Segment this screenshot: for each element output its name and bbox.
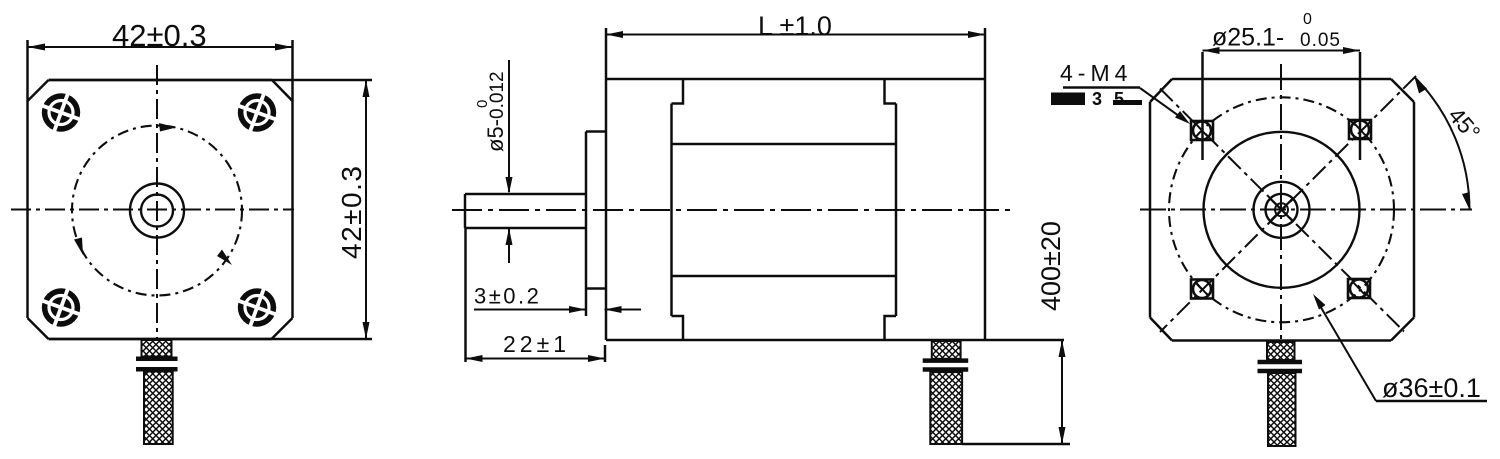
cable stub rear view: [1267, 342, 1295, 360]
arrow right of 22 dim: [588, 355, 605, 362]
rear chamfer top-right: [1391, 79, 1414, 102]
rotation arrow top of bolt circle: [159, 123, 176, 132]
cable stub side view: [932, 341, 961, 359]
front boss outline: [586, 132, 606, 289]
dim line 22: [466, 358, 606, 360]
dimension line 42 top: [28, 46, 293, 48]
label ø5 tolerance (rotated): [474, 71, 508, 152]
rotation arrow left of bolt circle: [74, 238, 83, 256]
cable stub front view: [142, 340, 172, 357]
shaft top edge: [465, 193, 586, 196]
rear face outline (chamfered square): [1150, 79, 1414, 341]
arrow down tip 400 dim: [1059, 427, 1066, 444]
svg-text:0.05: 0.05: [1300, 30, 1341, 51]
extension line left (42 top dim): [26, 40, 29, 101]
svg-text:5: 5: [1114, 89, 1124, 109]
svg-text:ø25.1-: ø25.1-: [1212, 24, 1284, 52]
4-M4 leader arrow: [1175, 111, 1190, 124]
arrow right of L dim: [968, 31, 985, 38]
vertical centerline: [156, 65, 158, 339]
extension line pilot right: [1359, 52, 1362, 160]
svg-text:3: 3: [1092, 89, 1102, 109]
pilot boss circle: [130, 184, 184, 238]
cable collar bar 2 front view: [136, 367, 178, 372]
dim line 3 right part: [605, 309, 642, 311]
cable collar bar 1 rear view: [1258, 360, 1303, 365]
chamfer bottom-right: [272, 318, 293, 339]
rear chamfer top-left: [1150, 79, 1172, 102]
extension line pilot left: [1201, 52, 1204, 160]
arrow right of 25.1 dim: [1343, 47, 1360, 54]
cable collar bar 1 front view: [136, 357, 178, 362]
shaft circle rear: [1266, 194, 1298, 226]
arrow left tip boss right: [605, 306, 622, 313]
extension of bottom edge to right dim: [49, 338, 373, 341]
dim line 3 left part: [474, 309, 586, 311]
arrow left of L dim: [606, 31, 623, 38]
hub circle rear: [1254, 182, 1310, 238]
diagonal centerline NE-SW (extended for 45 dim): [1160, 76, 1416, 332]
arrow top of right dim: [363, 80, 370, 97]
arrow down to shaft: [506, 177, 513, 194]
arrow left of top dim: [28, 44, 46, 51]
svg-text:45°: 45°: [1443, 102, 1485, 145]
dim line 400: [1061, 340, 1063, 444]
body right edge + extension up: [984, 28, 987, 340]
M4 hole bottom-right: [1348, 279, 1370, 298]
arrow bottom of 45 arc: [1462, 192, 1470, 210]
pilot circle rear: [1204, 132, 1360, 288]
cable rear view: [1268, 373, 1296, 446]
end cap step top-left: [672, 79, 684, 104]
screw head bottom-right: [232, 283, 282, 333]
shaft dia leader lower: [508, 228, 510, 263]
shaft circle: [141, 195, 173, 227]
M4 hole top-left: [1191, 121, 1213, 140]
svg-text:42±0.3: 42±0.3: [336, 165, 367, 259]
shaft dia leader upper: [508, 60, 510, 192]
cable side view: [930, 372, 962, 444]
diagonal centerline NW-SE: [1160, 89, 1404, 332]
label 42±0.3 right (rotated): [336, 165, 367, 259]
body bottom edge extended right: [606, 339, 1064, 342]
rotation arrow lower-right of bolt circle: [217, 250, 232, 266]
cable collar bar 2 side view: [923, 367, 969, 372]
depth underline bar: [1113, 100, 1142, 105]
dimension line L: [606, 34, 985, 36]
4-M4 leader line: [1140, 88, 1186, 121]
chamfer bottom-left: [28, 318, 49, 339]
bolt circle rear (dash-dot): [1169, 97, 1394, 322]
arrow left of 22 dim: [466, 355, 483, 362]
svg-text:0.012: 0.012: [487, 71, 508, 119]
extension line body face down: [604, 345, 607, 362]
extension line right (42 top dim): [291, 40, 294, 101]
stator lamination line upper: [672, 143, 897, 146]
rear chamfer bottom-right: [1391, 318, 1414, 341]
chamfer top-right: [272, 80, 293, 101]
svg-text:42±0.3: 42±0.3: [112, 18, 207, 53]
rear horizontal centerline: [1140, 209, 1472, 211]
svg-text:3±0.2: 3±0.2: [474, 284, 541, 309]
label 400±20 (rotated): [1036, 221, 1066, 311]
ø36 underline: [1376, 400, 1487, 403]
arrow right tip boss left: [569, 306, 586, 313]
body top edge: [606, 78, 985, 81]
dim line 25.1: [1203, 50, 1361, 52]
extension of top edge to right dim: [49, 79, 373, 82]
stator left edge: [670, 104, 673, 317]
4-M4 underline: [1063, 86, 1140, 89]
svg-text:0: 0: [1303, 11, 1312, 28]
arrow bottom of right dim: [363, 322, 370, 339]
arrow left of 25.1 dim: [1203, 47, 1220, 54]
arrow up to shaft bottom: [506, 228, 513, 245]
stator right edge: [895, 104, 898, 317]
svg-text:0: 0: [474, 100, 491, 108]
45 deg arc dimension: [1414, 77, 1469, 210]
stator lamination line lower: [672, 275, 897, 278]
svg-text:22±1: 22±1: [503, 331, 570, 357]
shaft end face: [464, 194, 467, 228]
svg-text:4-M4: 4-M4: [1060, 60, 1132, 86]
svg-text:400±20: 400±20: [1036, 221, 1066, 311]
end cap step top-right: [885, 79, 897, 104]
M4 hole top-right: [1349, 120, 1371, 139]
svg-text:ø36±0.1: ø36±0.1: [1382, 373, 1481, 403]
arrow up tip 400 dim: [1059, 340, 1066, 357]
cable collar bar 2 rear view: [1258, 369, 1303, 374]
shaft slot lines: [1271, 199, 1293, 221]
M4 hole bottom-left: [1191, 280, 1213, 299]
motor face outline (chamfered square): [28, 80, 293, 339]
body left edge + extension up: [605, 28, 608, 340]
arrow right of top dim: [275, 44, 293, 51]
shaft bottom edge: [465, 227, 586, 230]
depth symbol block: [1051, 93, 1085, 106]
ø36 leader arrow: [1313, 294, 1326, 310]
end cap step bottom-right: [885, 316, 897, 340]
ø36 leader line: [1316, 299, 1376, 401]
svg-text:L ±1.0: L ±1.0: [758, 11, 832, 41]
bolt circle (dash-dot): [72, 126, 242, 296]
cable collar bar 1 side view: [923, 358, 969, 363]
screw head bottom-left: [36, 283, 86, 333]
label 45 degrees (rotated): [1443, 102, 1485, 145]
screw head top-left: [36, 88, 86, 138]
cable front view: [144, 372, 173, 445]
side view centerline: [452, 209, 1010, 211]
dimension line 42 right: [365, 80, 367, 339]
arrow top of 45 arc: [1414, 77, 1427, 94]
rear chamfer bottom-left: [1150, 318, 1172, 341]
extension line shaft end down: [464, 228, 467, 362]
shaft center mark: [1275, 203, 1288, 216]
screw head top-right: [232, 88, 282, 138]
chamfer top-left: [28, 80, 49, 101]
extension line boss bottom: [585, 289, 588, 317]
cable end extension line: [962, 443, 1070, 446]
svg-text:ø5-: ø5-: [483, 119, 508, 152]
horizontal centerline: [11, 209, 294, 211]
rear vertical centerline: [1280, 64, 1282, 340]
end cap step bottom-left: [672, 316, 684, 340]
